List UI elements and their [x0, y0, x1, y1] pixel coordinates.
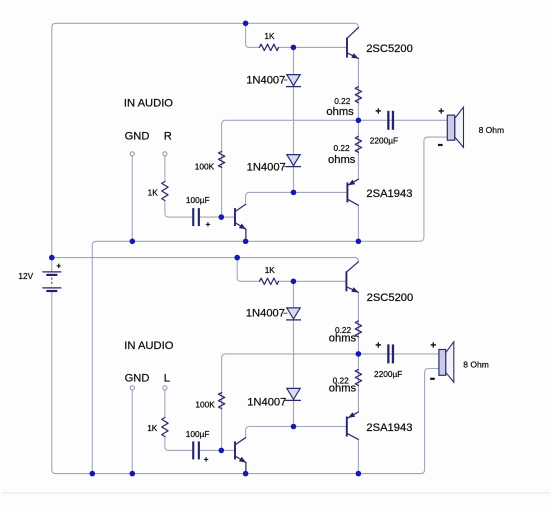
svg-text:IN AUDIO: IN AUDIO — [124, 98, 173, 110]
diode D1b 1N4007 (L channel) — [284, 308, 302, 320]
wire: Q3 collector down to ground rail — [357, 205, 359, 241]
svg-text:GND: GND — [125, 131, 150, 143]
wire: diode chain column D1b-D2b — [293, 281, 295, 426]
svg-text:1K: 1K — [264, 31, 275, 41]
terminal L input — [163, 386, 167, 390]
resistor R2 100K (R channel) — [218, 151, 224, 167]
wire: 100K-b column down to driver base node — [221, 358, 223, 450]
svg-text:+: + — [430, 340, 436, 351]
transistor Q6 driver (L channel NPN) — [235, 438, 246, 474]
wire: coupling cap to driver base — [200, 216, 234, 218]
transistor Q2 2SC5200 (L channel NPN) — [346, 262, 358, 293]
wire: battery + rail to L-channel supply — [52, 258, 359, 263]
node junction dot GND rail L — [130, 471, 136, 477]
wire: 100K column down to driver base node — [221, 125, 223, 218]
node junction dot Q4 collector rail — [356, 471, 362, 477]
wire: battery minus down, bottom rail, up to speaker L minus — [52, 292, 439, 473]
svg-text:+: + — [56, 262, 61, 271]
svg-text:8 Ohm: 8 Ohm — [463, 359, 489, 369]
transistor Q3 2SA1943 (R channel PNP) — [347, 179, 358, 205]
terminal R input — [163, 152, 167, 156]
svg-text:+: + — [375, 106, 381, 117]
svg-text:100K: 100K — [195, 161, 215, 171]
wire: GND R input down to ground rail — [131, 156, 133, 241]
node A junction dot — [243, 21, 249, 27]
wire: ground rail R-channel to inter-channel drop — [92, 241, 358, 473]
capacitor C1 100uF (R channel) — [192, 208, 200, 226]
capacitor C2 2200uF (R channel) — [387, 111, 394, 130]
svg-text:100µF: 100µF — [186, 195, 210, 205]
capacitor C1b 100uF (L channel) — [192, 441, 200, 459]
svg-text:IN AUDIO: IN AUDIO — [124, 340, 173, 352]
wire: driver Q5 collector up and across to Q3 base — [246, 192, 347, 204]
transistor Q1 2SC5200 (R channel NPN) — [347, 28, 359, 59]
wire: R1b right lead to Q2 base — [279, 280, 346, 282]
svg-text:100µF: 100µF — [186, 429, 210, 439]
wire: Q1 emitter column through 0.22 resistors to Q3 — [357, 59, 359, 180]
terminal GND (L channel) — [130, 386, 134, 390]
node junction dot battery plus — [49, 255, 55, 261]
svg-text:2SC5200: 2SC5200 — [366, 43, 413, 55]
node junction dot R1b/D1b — [291, 279, 297, 285]
wire: coupling cap to driver base L — [200, 449, 234, 451]
svg-text:1K: 1K — [265, 265, 276, 275]
diode D2 1N4007 (R channel) — [284, 155, 301, 167]
battery BT1 12V — [42, 272, 61, 292]
svg-text:2SA1943: 2SA1943 — [366, 422, 412, 434]
resistor R2b 100K (L channel) — [218, 393, 224, 409]
diode D1 1N4007 (R channel) — [284, 75, 301, 87]
svg-text:L: L — [164, 373, 170, 385]
svg-text:+: + — [375, 340, 381, 351]
wire: GND L input down to bottom rail — [131, 390, 133, 474]
svg-text:2SC5200: 2SC5200 — [367, 292, 414, 304]
node junction dot R1/D1 — [291, 45, 297, 51]
svg-text:+: + — [206, 220, 211, 229]
node junction dot inter-channel drop — [90, 471, 96, 477]
background artifact line — [2, 492, 550, 494]
wire: L input down through 1K to coupling cap — [165, 390, 192, 450]
wire: output rail L-channel (100K corner to speaker +) — [222, 354, 439, 358]
node junction dot D2/Q3 base — [291, 190, 297, 196]
svg-text:12V: 12V — [18, 271, 33, 281]
svg-text:8 Ohm: 8 Ohm — [479, 125, 505, 135]
resistor R5 0.22 ohms lower (R channel) — [355, 136, 361, 152]
wire: Q2 emitter column through 0.22 resistors to Q4 — [357, 293, 359, 412]
wire: +12V left vertical and top rail to Q1 collector — [52, 23, 359, 271]
node junction dot D2b/Q4 base — [291, 424, 297, 430]
svg-text:1K: 1K — [147, 423, 158, 433]
svg-text:1N4007: 1N4007 — [246, 308, 285, 320]
svg-text:2SA1943: 2SA1943 — [366, 188, 412, 200]
speaker LS2 8 Ohm (L channel) — [439, 342, 454, 382]
svg-text:1K: 1K — [148, 188, 159, 198]
wire: speaker R minus return to ground rail — [358, 137, 447, 241]
node junction dot Q3 collector rail — [356, 239, 362, 245]
svg-text:+: + — [204, 455, 209, 464]
wire: Q4 collector down to bottom rail — [357, 439, 359, 473]
resistor R3b 1K input (L channel) — [162, 418, 168, 437]
resistor R4 0.22 ohms upper (R channel) — [355, 87, 361, 103]
svg-text:2200µF: 2200µF — [370, 135, 398, 145]
node junction dot driver base R — [219, 214, 225, 220]
resistor R1 1K (R channel) — [260, 44, 279, 50]
svg-text:1N4007: 1N4007 — [247, 397, 286, 409]
wire: driver Q6 collector up and across to Q4 base — [246, 427, 346, 438]
svg-text:GND: GND — [125, 373, 150, 385]
wire: diode chain column D1-D2 — [293, 47, 295, 192]
speaker LS1 8 Ohm (R channel) — [447, 107, 463, 147]
terminal GND (R channel) — [130, 152, 134, 156]
svg-text:1N4007: 1N4007 — [246, 75, 285, 87]
label minus speaker LS1 — [438, 144, 443, 146]
svg-text:ohms: ohms — [326, 106, 354, 118]
node B junction dot — [234, 255, 240, 261]
svg-text:100K: 100K — [195, 399, 215, 409]
resistor R3 1K input (R channel) — [162, 182, 168, 201]
transistor Q5 driver (R channel NPN) — [235, 204, 246, 241]
svg-text:1N4007: 1N4007 — [247, 162, 286, 174]
wire: R input down through 1K to coupling cap — [165, 156, 192, 217]
svg-text:0.22: 0.22 — [334, 96, 351, 106]
svg-text:2200µF: 2200µF — [374, 369, 402, 379]
svg-text:ohms: ohms — [329, 332, 357, 344]
wire: R1 right lead to Q1 base — [279, 46, 347, 48]
node junction dot driver base L — [219, 448, 225, 454]
svg-text:0.22: 0.22 — [334, 143, 351, 153]
wire: node A down to 1K R1 feed — [246, 23, 260, 47]
node junction dot GND rail R — [130, 239, 136, 245]
svg-text:+: + — [438, 107, 444, 118]
node junction dot driver emitter L — [243, 471, 249, 477]
resistor R1b 1K (L channel) — [260, 278, 279, 284]
resistor R5b 0.22 ohms lower (L channel) — [355, 370, 361, 386]
wire: output rail R-channel (100K corner to speaker +) — [222, 120, 448, 124]
node junction dot output L — [356, 351, 362, 357]
wire: node B down to 1K R1b feed — [237, 258, 259, 282]
svg-text:ohms: ohms — [328, 154, 356, 166]
diode D2b 1N4007 (L channel) — [284, 388, 302, 400]
svg-text:ohms: ohms — [329, 383, 357, 395]
node junction dot driver emitter R — [243, 239, 249, 245]
svg-text:R: R — [164, 131, 172, 143]
capacitor C2b 2200uF (L channel) — [387, 344, 394, 363]
resistor R4b 0.22 ohms upper (L channel) — [355, 321, 361, 337]
node junction dot output R — [356, 118, 362, 124]
transistor Q4 2SA1943 (L channel PNP) — [347, 412, 359, 440]
label minus speaker LS2 — [430, 378, 435, 380]
